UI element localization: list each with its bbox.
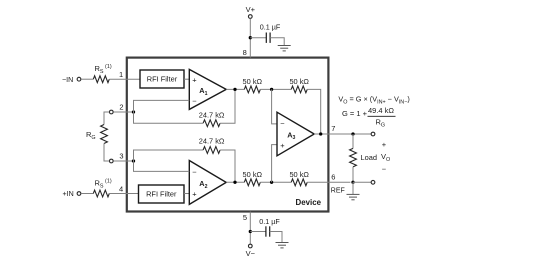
wire RG top (104, 112, 109, 125)
svg-text:−: − (382, 164, 387, 173)
wire A2 output (226, 181, 244, 183)
resistor Load (350, 148, 357, 167)
svg-text:+IN: +IN (63, 190, 74, 198)
svg-text:49.4 kΩ: 49.4 kΩ (368, 106, 394, 115)
svg-text:24.7 kΩ: 24.7 kΩ (199, 136, 225, 145)
op-amp A3 (277, 112, 314, 156)
wire C2 to ground (270, 232, 282, 243)
wire load top (352, 134, 354, 148)
svg-text:RFI Filter: RFI Filter (146, 190, 177, 199)
resistor RS1 (93, 76, 109, 83)
svg-text:−: − (192, 97, 197, 106)
svg-text:−: − (280, 119, 285, 128)
resistor RS2 (93, 190, 109, 197)
ground (REF) (347, 194, 360, 199)
junction pin 5 / bypass (249, 230, 252, 233)
wire RFI1 to A1 + (184, 78, 189, 80)
svg-text:6: 6 (331, 173, 335, 182)
svg-text:8: 8 (243, 48, 247, 57)
terminal output - (371, 180, 375, 184)
svg-text:+: + (382, 140, 387, 149)
wire A3 noninverting branch (272, 145, 277, 183)
junction A2 output (233, 181, 236, 184)
wire pin 2 into box (113, 111, 133, 113)
svg-text:1: 1 (119, 70, 123, 79)
svg-text:V+: V+ (246, 5, 256, 14)
junction pin 2 node (132, 110, 135, 113)
svg-text:+: + (192, 75, 197, 84)
wire RG bottom (104, 144, 109, 162)
wire REF to ground (352, 182, 354, 194)
svg-text:50 kΩ: 50 kΩ (243, 170, 263, 179)
resistor RG (101, 125, 108, 144)
junction pin 8 / bypass (249, 36, 252, 39)
junction pin 7 load (351, 132, 354, 135)
wire pin 3 into box (113, 160, 133, 162)
wire pin 6 to terminal (353, 181, 371, 183)
wire C1 to ground (270, 38, 284, 46)
svg-text:5: 5 (243, 213, 247, 222)
svg-text:7: 7 (331, 124, 335, 133)
RFI filter block 2 (139, 185, 185, 203)
wire A3 inverting branch (272, 89, 277, 124)
svg-text:2: 2 (119, 103, 123, 112)
resistor 50k bottom-left (244, 179, 260, 186)
ground (top bypass) (278, 46, 291, 51)
svg-text:G = 1 +: G = 1 + (342, 109, 368, 118)
terminal output + (371, 132, 375, 136)
wire A3 output to pin 7 (314, 133, 371, 135)
terminal pin 2 (109, 110, 113, 114)
wire bottom rail to pin 6 (307, 181, 350, 183)
wire Rs1 to pin 1 (109, 78, 140, 80)
svg-text:4: 4 (119, 184, 123, 193)
svg-text:0.1 µF: 0.1 µF (259, 217, 280, 226)
wire A2 inverting input (134, 161, 190, 171)
junction A3 output feedback (319, 132, 322, 135)
svg-text:Device: Device (296, 198, 322, 207)
junction pin 6 ref (351, 181, 354, 184)
junction A3 noninv-branch top (270, 88, 273, 91)
junction A3 inv-branch bottom (270, 181, 273, 184)
RFI filter block 1 (140, 70, 184, 88)
capacitor C1 0.1uF (266, 33, 270, 43)
svg-text:+: + (280, 141, 285, 150)
svg-text:50 kΩ: 50 kΩ (289, 77, 309, 86)
wire A2 feedback rail right (220, 150, 235, 182)
wire A2 feedback rail left (134, 150, 204, 161)
terminal +IN (77, 192, 81, 196)
resistor 50k bottom-right (291, 179, 307, 186)
svg-text:0.1 µF: 0.1 µF (260, 23, 281, 32)
resistor 50k top-left (244, 86, 260, 93)
wire A1 inverting input (134, 100, 190, 112)
op-amp A1 (189, 69, 226, 109)
svg-text:REF: REF (331, 187, 345, 194)
wire RFI2 to A2 + (184, 193, 189, 195)
resistor 50k top-right (291, 86, 307, 93)
svg-text:Load: Load (361, 153, 377, 162)
op-amp A2 (189, 161, 226, 205)
wire A1 feedback rail right (220, 89, 235, 123)
wire A1 output (226, 88, 244, 90)
svg-text:3: 3 (119, 152, 123, 161)
wire to bypass capacitor C2 (250, 231, 266, 233)
junction A1 output (233, 88, 236, 91)
capacitor C2 0.1uF (266, 226, 270, 236)
wire top rail to feedback vertical (307, 89, 321, 134)
wire between bottom 50k resistors (260, 181, 291, 183)
terminal pin 3 (109, 159, 113, 163)
ground (bottom bypass) (276, 243, 289, 248)
wire +IN to Rs2 (81, 193, 93, 195)
svg-text:−IN: −IN (62, 76, 73, 84)
wire pin 8 vertical (249, 19, 251, 58)
svg-text:−: − (192, 168, 197, 177)
terminal V+ (248, 15, 252, 19)
device outer box (127, 58, 329, 212)
wire between top 50k resistors (260, 88, 291, 90)
svg-text:V−: V− (246, 249, 256, 258)
wire -IN to Rs1 (81, 78, 93, 80)
resistor 24.7k (A2) (203, 147, 220, 154)
wire Rs2 to pin 4 (109, 193, 138, 195)
svg-text:24.7 kΩ: 24.7 kΩ (199, 111, 225, 120)
svg-text:RFI Filter: RFI Filter (147, 75, 178, 84)
wire to bypass capacitor C1 (250, 37, 266, 39)
terminal -IN (77, 77, 81, 81)
wire load bottom (352, 167, 354, 182)
wire pin 5 vertical (249, 212, 251, 244)
terminal V- (248, 244, 252, 248)
svg-text:50 kΩ: 50 kΩ (243, 77, 263, 86)
resistor 24.7k (A1) (203, 120, 220, 127)
junction pin 3 node (132, 159, 135, 162)
svg-text:50 kΩ: 50 kΩ (289, 170, 309, 179)
wire A1 feedback rail left (134, 112, 204, 123)
svg-text:+: + (192, 190, 197, 199)
